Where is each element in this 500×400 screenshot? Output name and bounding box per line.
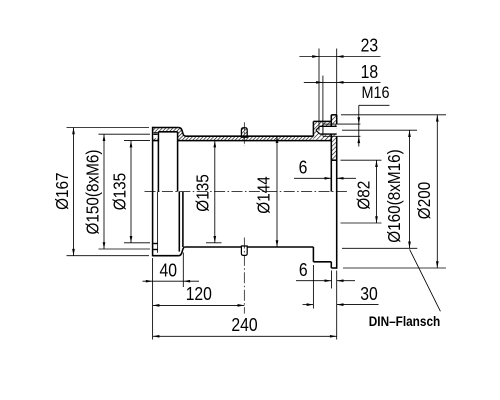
collar outer surface: [313, 120, 331, 122]
collar back face: [312, 121, 314, 136]
bore step face: [177, 132, 179, 141]
flange right face: [336, 115, 338, 269]
label diameter 144: [253, 176, 273, 213]
label inner diameter 135: [192, 174, 212, 211]
hatched section of lip and tube wall: [158, 128, 313, 141]
collar back face (bottom): [312, 247, 314, 262]
lip outer surface (top): [153, 127, 179, 129]
shoulder step edge (bottom view): [178, 192, 180, 252]
svg-text:M16: M16: [361, 84, 389, 102]
svg-text:6: 6: [299, 156, 308, 178]
label 6 (bottom): [299, 259, 308, 281]
extension lines for diameter 200: [341, 115, 446, 268]
hatched section of DIN flange disc: [331, 115, 336, 160]
svg-text:120: 120: [186, 283, 212, 305]
label diameter 160 (8xM16): [384, 149, 404, 242]
dimension line 30: [303, 303, 379, 306]
leader line to DIN flange: [410, 249, 441, 311]
sealing rib (bottom view): [241, 246, 247, 255]
rib centerline (top): [243, 122, 245, 146]
M6 tapped hole (bottom), on bolt circle: [153, 244, 157, 250]
dimension line diameter 160: [408, 130, 411, 248]
label diameter 200: [414, 182, 434, 219]
extension line shoulder 40: [182, 253, 184, 288]
label 6 (middle): [299, 156, 308, 178]
face ring back visible edge to centerline: [157, 141, 159, 192]
extension line drill depth 23: [318, 49, 320, 131]
dimension line left diameter 135: [130, 141, 133, 243]
tube bore surface: [178, 140, 332, 142]
label M16: [361, 84, 389, 102]
svg-text:Ø200: Ø200: [414, 182, 434, 219]
extension dashes for left diameter 135: [124, 141, 150, 243]
dimension line diameter 200: [436, 115, 439, 268]
extension line thread depth 18: [322, 76, 324, 134]
extension line left face (bottom dims): [152, 258, 154, 340]
M16 tapped hole bore: [316, 126, 337, 134]
svg-text:18: 18: [361, 61, 378, 83]
extension lines for diameter 82: [341, 160, 382, 223]
svg-text:Ø135: Ø135: [192, 174, 212, 211]
lip outer surface (bottom): [153, 255, 179, 257]
lip-to-tube transition curve (bottom): [179, 247, 185, 256]
flange disc left face (bottom): [330, 262, 332, 268]
svg-text:30: 30: [360, 283, 377, 305]
flange disc bore surface: [331, 159, 336, 161]
label DIN-Flansch: [369, 313, 441, 329]
dimension line 40: [143, 280, 200, 283]
hatched section of socket face ring: [153, 128, 159, 141]
extension lines disc thickness 6 (bottom): [331, 271, 333, 289]
extension line flange right face (top): [336, 49, 338, 115]
dimension line diameter 144: [276, 136, 279, 247]
tube outer surface (top): [186, 135, 313, 137]
extension lines for diameter 160 bolt circle: [342, 130, 417, 248]
svg-text:6: 6: [299, 259, 308, 281]
svg-text:23: 23: [361, 34, 378, 56]
dimension line M16 with reference line: [357, 105, 389, 146]
extension lines for diameter 150 bolt circle: [99, 134, 151, 249]
hatched section of sealing rib: [241, 128, 247, 137]
dimension line 120: [153, 304, 245, 307]
dimension line 6 (bottom): [296, 279, 355, 282]
label 240: [231, 314, 257, 336]
svg-text:Ø144: Ø144: [253, 176, 273, 213]
label left diameter 135: [109, 173, 129, 210]
extension line collar back face (30): [312, 265, 314, 309]
tube outer surface (bottom): [185, 246, 314, 248]
label diameter 150 (8xM6): [82, 150, 102, 235]
label diameter 167: [52, 173, 72, 210]
extension lines for diameter 167: [67, 128, 150, 256]
svg-text:Ø135: Ø135: [109, 173, 129, 210]
socket inner back edge (bottom view): [157, 192, 159, 253]
svg-text:Ø167: Ø167: [52, 173, 72, 210]
dimension line diameter 150: [103, 134, 106, 249]
dimension line diameter 82: [375, 160, 378, 223]
dimension line 240: [153, 335, 337, 338]
shoulder fillet tangent edge (bottom view): [182, 192, 184, 247]
label 120: [186, 283, 212, 305]
flange disc back visible edge to centerline: [330, 141, 332, 192]
svg-text:Ø160(8xM16): Ø160(8xM16): [384, 149, 404, 242]
label 40: [159, 259, 176, 281]
M6 tapped hole (top), on bolt circle: [153, 132, 157, 138]
svg-text:240: 240: [231, 314, 257, 336]
hatched section of weld collar: [313, 121, 331, 140]
svg-text:DIN–Flansch: DIN–Flansch: [369, 313, 441, 329]
dimension line diameter 167: [72, 128, 75, 256]
bore step visible edge to centerline: [177, 141, 179, 192]
groove bore surface: [158, 131, 177, 133]
extension line flange right face (bottom): [336, 271, 338, 340]
label 23: [361, 34, 378, 56]
main centerline: [145, 191, 349, 193]
M16 thread major diameter thin lines: [323, 124, 337, 136]
label 30: [360, 283, 377, 305]
flange disc bottom surface: [331, 267, 336, 269]
left end face line: [152, 127, 154, 257]
flange disc left face above collar: [330, 115, 332, 122]
label 18: [361, 61, 378, 83]
dimension 6 disc thickness at bore: [294, 177, 356, 180]
lip-to-tube transition curve (top): [179, 128, 186, 137]
flange disc contact joint line: [330, 121, 332, 140]
extension lines M16 thread diameter: [337, 124, 360, 136]
svg-text:40: 40: [159, 259, 176, 281]
face ring bore surface: [153, 140, 160, 142]
label diameter 82: [353, 181, 373, 210]
svg-text:Ø150(8xM6): Ø150(8xM6): [82, 150, 102, 235]
rib centerline / extension (bottom): [243, 238, 245, 314]
svg-text:Ø82: Ø82: [353, 181, 373, 210]
collar outer surface (bottom): [313, 261, 331, 263]
flange disc top surface: [331, 114, 336, 116]
face ring back edge: [157, 132, 159, 141]
dimension line inner diameter 135: [206, 141, 222, 243]
dimension line 23: [299, 55, 380, 58]
dimension line 18: [304, 81, 381, 84]
